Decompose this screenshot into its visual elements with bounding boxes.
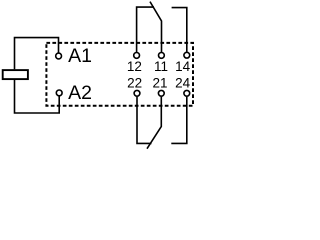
- svg-text:11: 11: [154, 59, 168, 74]
- svg-text:22: 22: [127, 75, 142, 90]
- svg-text:A1: A1: [68, 45, 92, 67]
- svg-text:12: 12: [127, 59, 142, 74]
- svg-text:A2: A2: [68, 82, 92, 104]
- svg-text:21: 21: [152, 75, 167, 90]
- svg-text:24: 24: [175, 75, 191, 90]
- svg-text:14: 14: [175, 59, 191, 74]
